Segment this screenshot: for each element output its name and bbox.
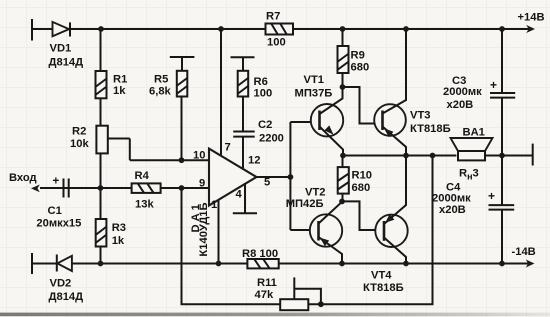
svg-text:х20В: х20В	[439, 204, 466, 216]
resistor R8	[247, 259, 278, 268]
svg-text:R10: R10	[352, 170, 373, 182]
capacitor C1	[53, 176, 69, 198]
resistor R6	[238, 71, 249, 97]
junction	[98, 185, 104, 191]
junction	[403, 261, 409, 267]
svg-text:МП42Б: МП42Б	[286, 198, 324, 210]
svg-text:680: 680	[351, 62, 370, 74]
svg-text:9: 9	[199, 178, 205, 190]
wire	[32, 263, 56, 265]
wire left column top	[100, 29, 102, 71]
wire top rail left	[70, 28, 266, 30]
svg-text:R2: R2	[72, 126, 86, 138]
svg-text:10k: 10k	[70, 138, 89, 150]
capacitor C2	[233, 132, 255, 137]
wire node A to VT3 base	[343, 87, 383, 124]
svg-text:10: 10	[193, 150, 205, 162]
svg-text:+14В: +14В	[518, 12, 545, 24]
junction	[340, 153, 346, 159]
wire C4 top	[501, 156, 503, 205]
wire	[100, 98, 102, 125]
svg-text:R11: R11	[257, 277, 277, 289]
resistor R5	[177, 71, 188, 97]
svg-text:2000мк: 2000мк	[432, 193, 471, 205]
node B junction	[339, 199, 345, 205]
+14V supply arrow	[526, 25, 535, 33]
junction	[403, 153, 409, 159]
op-amp DA1	[209, 149, 257, 206]
svg-text:R5: R5	[154, 74, 168, 86]
terminal top-left	[31, 19, 33, 41]
resistor R7	[266, 24, 294, 35]
wire pin4	[244, 183, 246, 213]
svg-text:КТ818Б: КТ818Б	[363, 282, 404, 294]
wire	[64, 187, 132, 189]
junction	[288, 174, 294, 180]
wire pin9	[161, 187, 209, 189]
junction	[216, 261, 222, 267]
wire R2 wiper down	[129, 139, 131, 161]
diode VD2	[57, 255, 72, 272]
svg-text:VD2: VD2	[50, 278, 72, 290]
svg-text:Вход: Вход	[9, 172, 37, 184]
wire R10 bottom to node B	[342, 194, 344, 202]
svg-text:C1: C1	[48, 205, 62, 217]
junction	[318, 301, 324, 307]
svg-text:20мкх15: 20мкх15	[36, 218, 81, 230]
svg-text:VT4: VT4	[371, 270, 392, 282]
junction	[499, 26, 505, 32]
wire pin1	[218, 200, 220, 264]
svg-text:7: 7	[225, 142, 231, 154]
svg-text:-14В: -14В	[512, 246, 536, 258]
svg-text:100: 100	[267, 37, 286, 49]
wire R10 top	[342, 156, 344, 168]
junction	[499, 261, 505, 267]
resistor R9	[338, 46, 349, 73]
svg-text:100: 100	[254, 88, 273, 100]
svg-text:МП37Б: МП37Б	[295, 88, 333, 100]
wire output to terminal	[485, 155, 533, 157]
terminal R5 top	[170, 56, 195, 58]
input arrow	[31, 185, 40, 193]
transistor VT3	[374, 29, 406, 156]
wire	[100, 153, 102, 219]
wire R11 wiper link	[294, 289, 321, 305]
junction	[499, 153, 505, 159]
diode VD1	[53, 22, 71, 37]
wire bottom rail left	[71, 263, 247, 265]
svg-text:R8 100: R8 100	[242, 248, 278, 260]
svg-text:5: 5	[264, 177, 270, 189]
svg-text:4: 4	[236, 189, 243, 201]
-14V supply arrow	[526, 260, 535, 268]
junction	[98, 261, 104, 267]
transistor VT4	[375, 156, 407, 264]
terminal R6 top	[231, 56, 255, 58]
svg-text:R3: R3	[112, 222, 126, 234]
wire C3 top	[501, 29, 503, 93]
wire output node	[343, 155, 456, 157]
svg-text:C2: C2	[258, 119, 272, 131]
svg-text:К140УД1Б: К140УД1Б	[198, 202, 210, 256]
wire C3 bottom	[501, 98, 503, 156]
svg-text:1k: 1k	[112, 235, 125, 247]
terminal output right	[532, 144, 534, 166]
svg-text:2200: 2200	[259, 133, 284, 145]
junction	[218, 26, 224, 32]
speaker BA1	[451, 138, 493, 160]
svg-text:1k: 1k	[113, 85, 126, 97]
resistor R4	[132, 183, 161, 193]
svg-text:х20В: х20В	[447, 99, 474, 111]
wire R9 top	[342, 29, 344, 46]
svg-text:+: +	[490, 78, 497, 92]
capacitor C4	[488, 189, 514, 210]
wire pin5 output	[257, 176, 291, 178]
svg-text:13k: 13k	[135, 199, 154, 211]
svg-text:BA1: BA1	[463, 127, 485, 139]
svg-text:VT2: VT2	[305, 187, 326, 199]
wire pin7	[220, 29, 222, 156]
wire	[181, 57, 183, 71]
transistor VT2	[310, 202, 342, 264]
wire C4 bottom	[501, 210, 503, 264]
svg-text:R7: R7	[266, 11, 280, 23]
wire top rail right	[293, 28, 530, 30]
wire VT2 base	[290, 229, 319, 231]
svg-text:12: 12	[248, 155, 260, 167]
wire R11 to output column	[308, 156, 432, 305]
resistor R3	[96, 219, 107, 247]
wire	[342, 73, 344, 87]
junction	[179, 157, 185, 163]
wire pin12	[242, 137, 244, 169]
svg-text:680: 680	[352, 182, 371, 194]
svg-text:6,8k: 6,8k	[149, 86, 172, 98]
svg-text:R1: R1	[113, 74, 127, 86]
svg-text:Д814Д: Д814Д	[49, 291, 84, 303]
junction	[340, 26, 346, 32]
svg-text:R9: R9	[351, 50, 365, 62]
wire	[40, 187, 64, 189]
svg-text:VT1: VT1	[304, 74, 325, 86]
junction	[339, 261, 345, 267]
wire	[242, 97, 244, 132]
node A junction	[340, 84, 346, 90]
transistor VT1	[311, 87, 343, 156]
svg-text:R6: R6	[254, 76, 268, 88]
wire pin10	[130, 159, 209, 161]
wire node B to VT4 base	[342, 201, 384, 230]
capacitor C3	[490, 78, 515, 98]
junction	[179, 185, 185, 191]
svg-text:1: 1	[211, 199, 217, 211]
svg-text:47k: 47k	[255, 289, 274, 301]
wire	[181, 97, 183, 161]
terminal bottom-left	[31, 253, 33, 274]
junction	[98, 26, 104, 32]
junction	[430, 153, 436, 159]
wire bottom rail right	[279, 263, 529, 265]
svg-text:VD1: VD1	[50, 43, 72, 55]
svg-text:VT3: VT3	[410, 110, 431, 122]
resistor R10	[338, 167, 349, 194]
potentiometer R2	[96, 126, 129, 154]
wire feedback column left	[182, 188, 281, 304]
resistor R1	[96, 71, 107, 98]
svg-text:2000мк: 2000мк	[443, 86, 482, 98]
svg-text:R4: R4	[135, 170, 150, 182]
svg-text:+: +	[53, 176, 60, 188]
pin4 end bar	[233, 212, 257, 214]
svg-text:КТ818Б: КТ818Б	[410, 123, 451, 135]
junction	[403, 26, 409, 32]
potentiometer R11	[280, 277, 308, 310]
wire	[32, 28, 53, 30]
wire	[242, 57, 244, 71]
wire VT1 base	[290, 121, 319, 123]
wire driver base column	[289, 122, 291, 230]
svg-text:+: +	[488, 189, 495, 203]
svg-text:Д814Д: Д814Д	[49, 56, 84, 68]
wire	[100, 247, 102, 264]
